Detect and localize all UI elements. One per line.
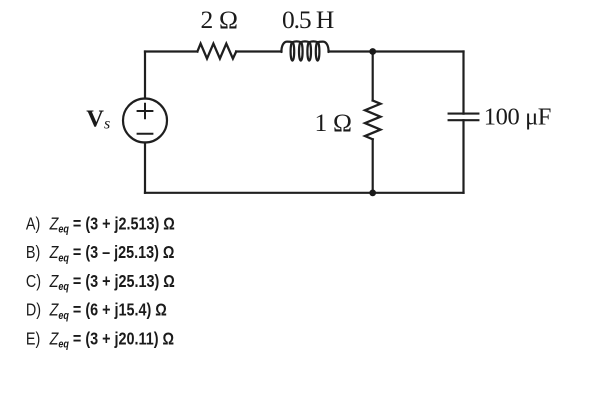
svg-text:Zeq = (3 + j20.11) Ω: Zeq = (3 + j20.11) Ω [49,329,174,351]
wire bottom horizontal [145,192,464,194]
svg-text:0.5 H: 0.5 H [282,5,334,34]
inductor L1 0.5H [281,42,328,61]
wire right vertical lower [462,120,464,193]
voltage source Vs [123,99,167,143]
wire left vertical upper [144,52,146,99]
svg-text:D): D) [26,300,41,320]
resistor R1 2Ω [197,44,236,59]
svg-text:100 μF: 100 μF [484,103,551,130]
plus sign of Vs [138,104,153,118]
answer option D [26,300,167,322]
wire middle branch lower [372,139,374,193]
answer option E [26,329,174,351]
svg-text:E): E) [26,329,40,349]
wire middle branch upper [372,52,374,101]
wire between R1 and L1 [236,50,281,52]
resistor R2 1Ω [365,101,381,140]
wire left vertical lower [144,143,146,193]
answer option A [26,214,175,236]
svg-text:Zeq = (3 – j25.13) Ω: Zeq = (3 – j25.13) Ω [49,243,175,265]
svg-text:Zeq = (6 + j15.4) Ω: Zeq = (6 + j15.4) Ω [49,300,167,322]
svg-text:C): C) [26,271,41,291]
wire top-left horizontal [145,50,197,52]
svg-text:A): A) [26,214,40,234]
answer option B [26,243,175,265]
answer option C [26,271,175,293]
svg-text:Zeq = (3 + j2.513) Ω: Zeq = (3 + j2.513) Ω [49,214,175,236]
junction bottom node [369,190,376,197]
junction top node [369,48,376,55]
capacitor C1 100µF top plate [449,113,479,115]
wire L1 to top-right corner [329,50,464,52]
svg-text:1 Ω: 1 Ω [315,108,352,137]
svg-text:B): B) [26,243,40,263]
capacitor C1 100µF bottom plate [449,119,479,121]
minus sign of Vs [138,133,153,135]
svg-text:2 Ω: 2 Ω [201,5,238,34]
svg-text:Vs: Vs [86,105,110,132]
wire right vertical upper [462,52,464,114]
svg-text:Zeq = (3 + j25.13) Ω: Zeq = (3 + j25.13) Ω [49,271,175,293]
